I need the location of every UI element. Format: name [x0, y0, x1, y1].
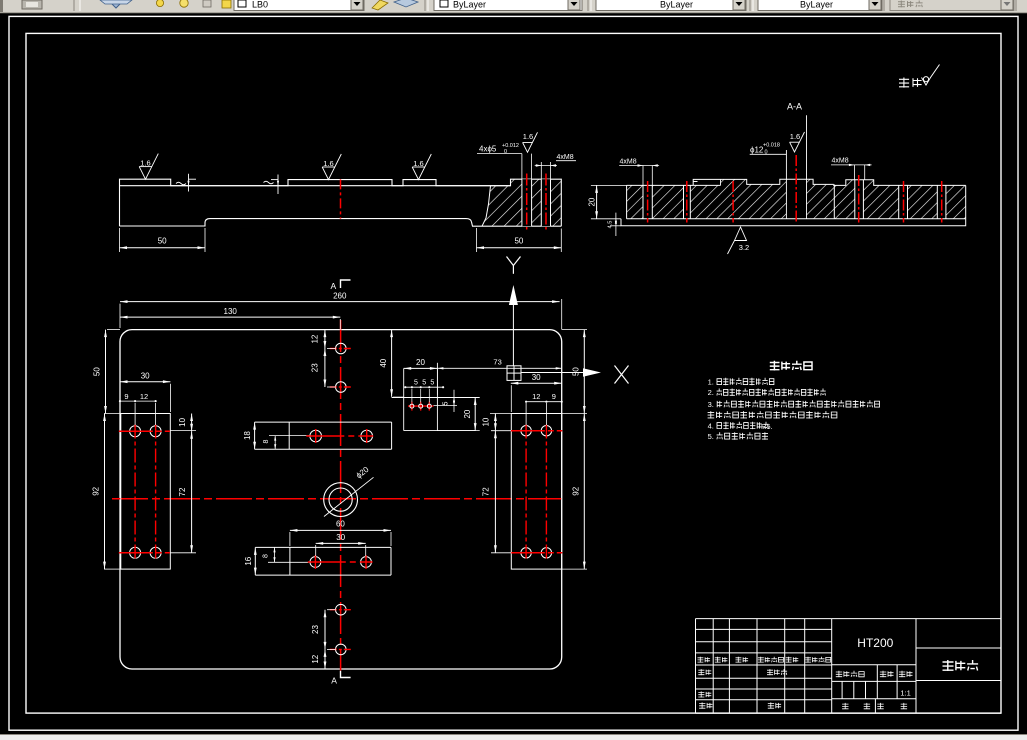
svg-text:3.: 3. — [708, 400, 714, 409]
section A-A base strip — [621, 219, 966, 226]
svg-text:23: 23 — [311, 625, 320, 634]
right block red lines — [511, 430, 563, 432]
svg-text:10: 10 — [482, 417, 491, 426]
svg-text:12: 12 — [532, 392, 540, 401]
surface junction tick 2 — [277, 175, 279, 195]
pad outline small step — [720, 179, 722, 185]
svg-text:50: 50 — [572, 367, 581, 376]
linetype combo box — [596, 0, 746, 11]
hole 1 red centerline — [526, 174, 528, 232]
svg-text:20: 20 — [587, 197, 596, 206]
stage mark weight scale labels — [836, 671, 864, 677]
roughness 1.6 above block hole — [523, 132, 538, 152]
continuous surface line under pads — [120, 185, 511, 187]
surface wave mark 2 — [264, 181, 274, 184]
svg-text:ByLayer: ByLayer — [660, 0, 693, 10]
center bottom slot — [255, 546, 391, 548]
front view block hole 2 (4xM8) — [541, 179, 550, 226]
dimension 50 left foot — [119, 228, 121, 252]
svg-text:1:1: 1:1 — [900, 689, 910, 698]
modify icons — [372, 0, 388, 10]
dimension 12 top center — [327, 348, 336, 350]
svg-text:4xM8: 4xM8 — [620, 159, 637, 166]
dimension 18 top slot — [254, 422, 256, 449]
plan main red centerline vertical — [340, 320, 342, 671]
svg-text:ϕ12: ϕ12 — [750, 146, 764, 155]
bottom slot red line — [308, 561, 373, 563]
svg-text:73: 73 — [493, 358, 501, 367]
Phi12 hole edges with extension up — [785, 150, 787, 219]
dimension 23 top center — [327, 386, 336, 388]
roughness symbol 1.6 on pad 3 — [412, 154, 431, 180]
svg-text:5: 5 — [414, 380, 418, 387]
svg-text:A: A — [330, 281, 336, 291]
dimension 40 — [393, 396, 404, 398]
color combo box — [434, 0, 582, 11]
section red centerlines — [647, 181, 649, 223]
label 4xM8 right — [540, 162, 542, 179]
label 4xPhi5 with tolerance — [521, 154, 523, 180]
svg-text:LB0: LB0 — [252, 0, 268, 10]
Phi20 leader — [324, 477, 374, 516]
dimension base strip height — [610, 225, 621, 227]
dimension 23 bottom center — [327, 609, 336, 611]
svg-text:0: 0 — [765, 150, 768, 156]
surface wave mark 1 — [176, 182, 186, 185]
svg-text:8: 8 — [263, 554, 270, 558]
dimension 92 left — [104, 568, 120, 570]
layer combo box — [234, 0, 364, 11]
svg-text:30: 30 — [532, 373, 541, 382]
dimensions 12 and 9 right — [525, 403, 527, 425]
dimension 5 keyway right — [434, 405, 458, 407]
front view block hole 1 (4xPhi5) — [522, 179, 532, 226]
dimension 20 keyway right — [437, 430, 479, 432]
svg-text:2.: 2. — [708, 388, 714, 397]
svg-text:130: 130 — [224, 307, 238, 316]
dimension 10 left block — [170, 430, 196, 432]
roughness 1.6 on section boss — [790, 132, 805, 152]
technical requirements title — [770, 361, 812, 371]
dimensions 9 and 12 left — [134, 403, 136, 425]
svg-text:12: 12 — [311, 654, 320, 663]
svg-text:12: 12 — [311, 334, 320, 343]
svg-text:50: 50 — [158, 237, 167, 246]
UCS X letter — [615, 366, 629, 384]
section A-A hatched cut area — [627, 179, 966, 219]
svg-text:ByLayer: ByLayer — [800, 0, 833, 10]
toolbar left icons — [0, 0, 3, 12]
label Phi12 with tolerance — [750, 153, 787, 155]
svg-text:16: 16 — [244, 556, 253, 565]
title block row labels — [698, 657, 711, 663]
svg-text:1.6: 1.6 — [140, 159, 150, 168]
top slot holes — [310, 430, 322, 442]
svg-text:4xM8: 4xM8 — [557, 154, 574, 161]
svg-text:9: 9 — [124, 392, 128, 401]
front view bottom profile — [120, 219, 562, 227]
svg-text:1.: 1. — [708, 378, 714, 387]
dimensions 5 5 5 keyway — [405, 386, 443, 388]
svg-text:R5.: R5. — [761, 422, 773, 431]
layers icon — [108, 0, 124, 8]
dimension 260 top — [119, 304, 121, 328]
left block holes — [130, 426, 141, 437]
svg-text:20: 20 — [416, 358, 425, 367]
dimension 50 left — [107, 329, 120, 331]
left slot block — [121, 414, 171, 570]
hole 2 red centerline — [545, 174, 547, 232]
top slot red line — [306, 435, 373, 437]
right block holes — [521, 426, 531, 436]
svg-text:18: 18 — [243, 431, 252, 440]
center column holes — [336, 343, 347, 354]
keyway three holes — [408, 405, 434, 407]
svg-text:4xϕ5: 4xϕ5 — [479, 145, 497, 154]
svg-text:5: 5 — [430, 380, 434, 387]
svg-text:+0.018: +0.018 — [763, 143, 780, 149]
dimension 20 keyway top — [404, 367, 438, 369]
dimension 72 left block — [170, 552, 196, 554]
toolbar strip (top of AutoCAD window, cut off) — [0, 0, 1027, 13]
roughness symbol 1.6 on pad 2 — [322, 154, 341, 180]
svg-text:40: 40 — [379, 358, 388, 367]
part name jiajuti — [943, 660, 979, 671]
svg-text:9: 9 — [552, 392, 556, 401]
surface junction tick 1 — [188, 174, 190, 192]
dimension 30 right block — [510, 385, 512, 412]
dimension 92 right — [562, 413, 587, 415]
front view outline — [120, 179, 562, 226]
section A-A top profile — [627, 179, 966, 219]
dimension 50 right foot — [476, 228, 478, 252]
front view red centerline — [340, 179, 342, 218]
plan view rounded outline — [120, 330, 562, 669]
svg-text:HT200: HT200 — [857, 636, 893, 650]
svg-text:72: 72 — [178, 487, 187, 496]
svg-text:5: 5 — [422, 380, 426, 387]
plan main red centerline horizontal — [112, 498, 562, 500]
svg-text:260: 260 — [333, 291, 347, 300]
svg-text:4.5: 4.5 — [608, 221, 614, 229]
svg-text:72: 72 — [482, 487, 491, 496]
title block right section lines — [832, 618, 1001, 620]
dimension 8 bottom slot — [268, 561, 311, 563]
svg-text:23: 23 — [311, 363, 320, 372]
UCS icon — [507, 366, 521, 381]
svg-text:30: 30 — [141, 372, 150, 381]
layer state icons — [156, 0, 163, 7]
dimension 12 bottom center — [324, 649, 326, 669]
section A-A band bottom and edges — [626, 185, 628, 218]
dimension 73 — [437, 367, 561, 369]
svg-text:A: A — [331, 676, 337, 686]
lineweight combo box — [758, 0, 882, 11]
svg-text:50: 50 — [93, 367, 102, 376]
roughness 3.2 bottom of section — [728, 227, 747, 254]
svg-text:4.: 4. — [708, 421, 714, 430]
svg-text:ByLayer: ByLayer — [453, 0, 486, 10]
dimension 72 right block — [491, 552, 511, 554]
svg-text:4xM8: 4xM8 — [832, 158, 849, 165]
svg-text:50: 50 — [514, 237, 523, 246]
default roughness note (qiyu) — [899, 78, 922, 88]
svg-text:1.6: 1.6 — [790, 132, 800, 141]
section holes white edges — [642, 185, 644, 218]
keyway group rectangle — [403, 368, 405, 430]
label 4xM8 right section — [853, 165, 855, 180]
svg-text:5: 5 — [442, 401, 449, 405]
front view hatched right block — [482, 179, 561, 226]
svg-text:8: 8 — [263, 439, 270, 443]
dimension 30 bottom slot — [315, 545, 317, 556]
center top slot — [255, 421, 392, 423]
bottom status strip — [0, 735, 1027, 740]
svg-text:1.6: 1.6 — [523, 132, 533, 141]
center big circle Phi20 — [324, 483, 358, 517]
svg-text:20: 20 — [463, 409, 472, 418]
dimension 20 section height — [591, 184, 627, 186]
svg-text:0: 0 — [504, 149, 507, 155]
svg-text:92: 92 — [572, 486, 581, 495]
svg-text:5.: 5. — [708, 432, 714, 441]
svg-text:1.6: 1.6 — [413, 159, 423, 168]
svg-text:10: 10 — [178, 417, 187, 426]
left block red lines — [119, 430, 170, 432]
label 4xM8 left section — [642, 166, 644, 186]
svg-text:12: 12 — [140, 392, 148, 401]
dimension 8 top slot — [269, 435, 311, 437]
svg-text:30: 30 — [336, 533, 345, 542]
right slot block — [511, 414, 561, 570]
svg-text:92: 92 — [92, 486, 101, 495]
title block grid — [696, 618, 832, 620]
svg-text:1.6: 1.6 — [323, 159, 333, 168]
svg-text:A-A: A-A — [787, 102, 802, 112]
plot style combo box (disabled) — [890, 0, 1014, 11]
bottom slot holes — [310, 557, 321, 568]
sheet count row — [842, 703, 848, 709]
dimension 16 bottom slot — [254, 547, 256, 575]
dimension 10 right block — [490, 413, 511, 415]
svg-text:60: 60 — [336, 520, 345, 529]
dimension 130 top — [339, 319, 341, 330]
dimension 60 bottom slot — [289, 532, 291, 546]
dimension 50 right — [562, 329, 587, 331]
roughness symbol 1.6 on left pad — [139, 154, 158, 180]
svg-text:3.2: 3.2 — [739, 243, 749, 252]
UCS Y letter — [507, 257, 514, 266]
dimension 30 left block — [169, 384, 171, 412]
